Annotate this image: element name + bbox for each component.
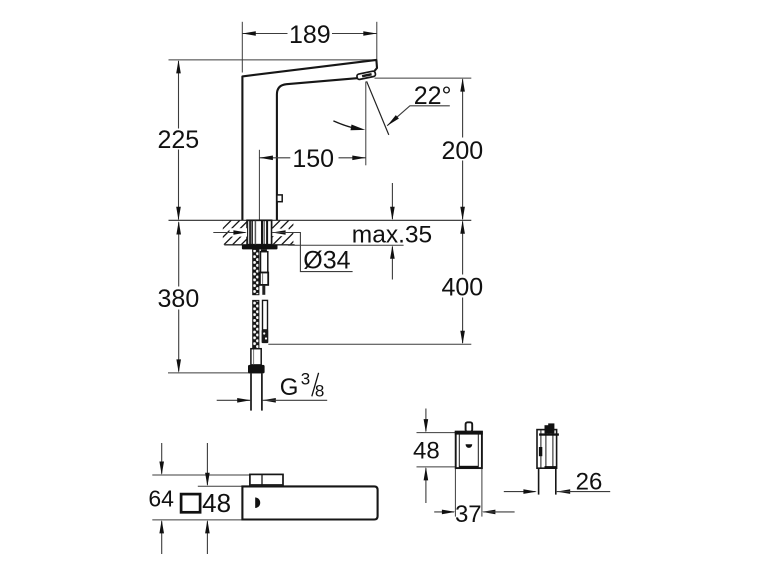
mounting flange	[242, 245, 278, 252]
label 22 degrees	[387, 82, 451, 126]
svg-text:3: 3	[301, 369, 310, 388]
svg-text:200: 200	[441, 137, 483, 165]
braided hose lower	[253, 300, 259, 348]
G3/8 nut	[248, 365, 265, 374]
faucet outline	[242, 60, 377, 221]
dimension square 48	[181, 443, 242, 554]
dimension 225 faucet height	[157, 60, 376, 220]
threaded shank	[247, 220, 272, 244]
dimension max.35 mounting depth	[288, 183, 432, 280]
sensor mark	[255, 497, 260, 508]
svg-text:380: 380	[158, 285, 200, 313]
braided hose upper	[253, 249, 259, 294]
dimension 48 control box	[413, 409, 455, 504]
sensor window tab	[277, 195, 282, 202]
svg-text:225: 225	[157, 126, 199, 154]
dimension 189 spout reach	[242, 21, 376, 73]
deck hatch left	[198, 220, 274, 244]
G3/8 fitting	[251, 349, 261, 365]
control box front	[455, 422, 483, 468]
deck hatch right	[247, 220, 323, 244]
deck line	[169, 219, 472, 221]
svg-text:G: G	[280, 374, 299, 401]
svg-text:8: 8	[315, 382, 324, 401]
label G 3/8 thread	[217, 369, 328, 402]
base plate	[250, 474, 283, 486]
stream direction arrow	[333, 121, 365, 130]
hose connector upper	[260, 252, 268, 295]
svg-text:400: 400	[441, 273, 483, 301]
dimension 26 control box depth	[504, 468, 610, 495]
deck bottom line	[224, 244, 294, 246]
svg-text:64: 64	[148, 486, 174, 512]
svg-text:48: 48	[202, 488, 231, 518]
dimension diameter 34	[213, 228, 352, 274]
svg-text:max.35: max.35	[352, 221, 432, 248]
dimension 150 outlet distance	[259, 82, 365, 220]
svg-text:189: 189	[289, 21, 331, 49]
dimension 37 control box width	[434, 469, 514, 528]
plan view spout body	[242, 486, 377, 519]
svg-text:37: 37	[455, 501, 482, 528]
control box side view	[537, 423, 559, 494]
dimension 64 base depth	[148, 443, 249, 554]
svg-text:48: 48	[413, 438, 440, 465]
dimension 380 hose length	[158, 221, 263, 373]
aerator outlet	[357, 71, 376, 80]
dimensions 200 and 400	[268, 78, 483, 344]
hose connector lower	[262, 300, 269, 343]
svg-text:150: 150	[292, 145, 334, 173]
water stream line	[367, 81, 389, 135]
svg-text:26: 26	[576, 468, 603, 495]
svg-text:Ø34: Ø34	[303, 246, 350, 274]
supply tube	[251, 373, 262, 410]
